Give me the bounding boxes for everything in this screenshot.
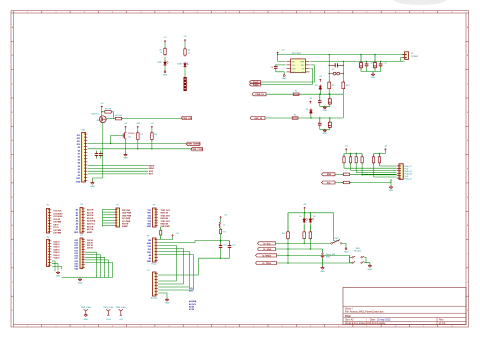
power symbol +5V above D3 — [319, 79, 321, 82]
capacitor C5 on PWR_IN — [319, 94, 321, 99]
svg-text:Sheet: /: Sheet: / — [345, 307, 353, 310]
wire R19 down to TXD net — [287, 239, 289, 264]
svg-text:C10: C10 — [369, 63, 372, 65]
svg-text:R10: R10 — [346, 85, 349, 87]
svg-text:7: 7 — [423, 326, 424, 328]
wire pin2 loop — [276, 64, 286, 66]
svg-text:A1: A1 — [76, 211, 78, 214]
ground below output caps — [372, 72, 374, 74]
svg-text:AD5 SCL: AD5 SCL — [87, 223, 96, 226]
LED D1 — [164, 62, 167, 65]
svg-text:D6: D6 — [78, 157, 80, 159]
svg-text:GND PWR: GND PWR — [161, 226, 171, 228]
svg-text:8: 8 — [451, 326, 452, 328]
power symbol +5V above Q2 — [125, 126, 127, 129]
power symbol +5V below flag — [120, 315, 121, 316]
svg-text:A7 IN: A7 IN — [189, 308, 195, 311]
svg-text:A5: A5 — [149, 257, 151, 260]
global label SDA2 — [258, 247, 276, 250]
wire PWR_IN rail — [266, 93, 343, 95]
svg-text:D1: D1 — [78, 172, 80, 174]
resistor R19 — [287, 213, 289, 232]
wire from R5 to gate — [111, 112, 113, 119]
svg-text:IO_SDA: IO_SDA — [263, 248, 271, 251]
ground below power flag 1 — [84, 314, 88, 316]
wire R8 down to net — [151, 139, 153, 148]
svg-text:D8: D8 — [78, 150, 80, 152]
svg-text:POWER: POWER — [411, 56, 419, 58]
global label GND_IN — [250, 116, 265, 119]
svg-text:C14: C14 — [232, 244, 235, 246]
ground below P6 — [57, 271, 59, 273]
svg-text:PWR_SENSE: PWR_SENSE — [187, 144, 201, 146]
power symbol +5V for LED branch 2 — [184, 40, 186, 43]
svg-text:R9: R9 — [332, 85, 334, 87]
wire drain of Q1 down — [102, 123, 104, 178]
svg-text:GND: GND — [163, 74, 168, 76]
svg-text:GND: GND — [282, 78, 287, 80]
power symbol +5V above L1 — [220, 217, 222, 220]
wire SDA2 net — [276, 248, 323, 250]
svg-text:2: 2 — [282, 326, 283, 328]
resistor R2 — [184, 49, 186, 55]
svg-text:TX1: TX1 — [148, 210, 151, 212]
svg-text:PinA_J2: PinA_J2 — [405, 178, 412, 181]
wire D3 to rail — [319, 91, 321, 94]
ground below P9 — [166, 298, 168, 300]
ground below C8 — [324, 129, 326, 131]
wire — [184, 69, 186, 78]
wire — [184, 42, 186, 49]
svg-text:D6: D6 — [313, 216, 315, 218]
svg-text:5V0: 5V0 — [148, 246, 151, 248]
svg-text:6: 6 — [395, 326, 396, 328]
svg-text:AREF: AREF — [87, 231, 93, 234]
svg-text:D13 SCK: D13 SCK — [54, 211, 63, 213]
svg-text:A7: A7 — [76, 228, 78, 231]
wire +5V down to pin1 — [278, 54, 286, 61]
svg-text:R19: R19 — [282, 233, 285, 235]
wire rail down to SW1 — [333, 213, 335, 241]
svg-text:D41: D41 — [75, 262, 78, 265]
svg-text:GND: GND — [78, 283, 83, 285]
global label TXD2 — [256, 261, 277, 264]
svg-text:D28 IO: D28 IO — [54, 249, 61, 251]
resistor R14 — [361, 154, 363, 157]
global label SCL2 — [258, 242, 276, 245]
svg-text:PWR_ON: PWR_ON — [182, 118, 192, 120]
svg-text:C12: C12 — [383, 63, 386, 65]
svg-text:AD3 IN: AD3 IN — [87, 217, 94, 220]
svg-text:D12: D12 — [77, 138, 80, 140]
polarized capacitor C9 — [360, 55, 362, 63]
power symbol +5V above R8 — [151, 126, 153, 129]
svg-text:4: 4 — [338, 326, 339, 328]
svg-text:A5: A5 — [76, 223, 78, 226]
capacitor C10 — [366, 61, 368, 62]
svg-text:A2: A2 — [76, 214, 78, 217]
svg-text:PWR_FLAG: PWR_FLAG — [103, 306, 113, 309]
svg-text:GND PWR: GND PWR — [122, 215, 132, 217]
global label PGND 1 — [250, 81, 261, 84]
LED D2 — [184, 64, 187, 67]
wire pin8 to rail — [310, 60, 404, 62]
wire R9 to rail PWR_IN — [328, 89, 330, 95]
svg-text:P1: P1 — [411, 53, 413, 55]
wire C5 C6 bottoms to ground — [320, 104, 330, 107]
vertical rail from top wires — [328, 55, 330, 64]
resistor R13 — [355, 154, 357, 157]
inductor L1 — [218, 222, 221, 227]
fuse F3 between P5 and P8 — [160, 227, 162, 230]
svg-text:C13: C13 — [223, 244, 226, 246]
LED D6 — [309, 213, 311, 218]
svg-text:GND: GND — [147, 261, 152, 263]
svg-text:D24 IO: D24 IO — [54, 243, 61, 246]
ground bus under P7 — [62, 277, 113, 279]
global label SIG1 — [322, 173, 336, 176]
wire +5V rail right group — [384, 151, 386, 153]
svg-text:PB_Boot: PB_Boot — [354, 249, 362, 252]
wire SW1 to ground — [342, 243, 346, 247]
resistor R11 — [343, 154, 345, 157]
diode D3 — [319, 86, 322, 89]
fuse F2 — [292, 117, 298, 119]
global label SENSE2 — [191, 148, 203, 151]
wire P8 pin4 down — [158, 249, 183, 285]
svg-text:GND: GND — [90, 186, 95, 188]
svg-text:J: J — [12, 282, 13, 284]
svg-text:8: 8 — [225, 12, 226, 14]
svg-text:D2: D2 — [78, 169, 80, 171]
wire — [164, 57, 166, 61]
svg-text:1: 1 — [253, 326, 254, 328]
svg-text:D10 SS: D10 SS — [54, 219, 61, 221]
svg-text:A3: A3 — [76, 217, 78, 220]
power symbol +5V right group — [384, 149, 386, 152]
svg-text:1k: 1k — [160, 52, 162, 54]
svg-text:PWR_IN: PWR_IN — [256, 94, 265, 96]
svg-text:SDA: SDA — [327, 173, 332, 176]
resistor R21 — [309, 224, 311, 232]
svg-text:PGND: PGND — [253, 84, 259, 86]
svg-text:4: 4 — [112, 12, 113, 14]
wire D4 to GND_IN rail — [310, 115, 312, 118]
svg-text:GND_IN: GND_IN — [254, 118, 262, 120]
connector J9 vertical strip — [184, 77, 187, 91]
svg-text:R7: R7 — [140, 134, 142, 136]
svg-text:D34 IO: D34 IO — [54, 257, 61, 260]
svg-text:D8 IO: D8 IO — [54, 224, 59, 226]
svg-text:C3: C3 — [271, 67, 273, 69]
svg-text:AD0 IN: AD0 IN — [87, 209, 94, 212]
ground below C6 — [324, 106, 326, 108]
svg-text:RXD1 IN: RXD1 IN — [161, 213, 169, 215]
ground at SW1 — [345, 246, 347, 249]
svg-text:4: 4 — [338, 12, 339, 14]
svg-text:RXD3 IN: RXD3 IN — [161, 224, 169, 226]
global label MOSFET_GATE — [181, 116, 192, 119]
connector P1 power output — [405, 52, 409, 60]
wire rail down to P9 — [158, 258, 198, 275]
power symbol +3V3 below flag — [107, 315, 108, 316]
varistor RV1 — [333, 72, 336, 75]
svg-text:6: 6 — [169, 12, 170, 14]
svg-text:GND: GND — [56, 276, 61, 278]
wires P9 pins from verticals — [158, 280, 176, 282]
svg-text:GND: GND — [147, 243, 152, 245]
svg-text:F: F — [467, 168, 468, 170]
wire pin6 loop — [261, 68, 313, 84]
svg-text:Power: Power — [151, 263, 157, 266]
power symbol +5V above Q1 — [101, 106, 103, 109]
svg-text:10 may 2013: 10 may 2013 — [377, 320, 391, 322]
global label SENSE1 — [186, 142, 200, 145]
svg-text:TX3: TX3 — [148, 221, 151, 223]
wire R7 down to net — [137, 139, 139, 148]
fuse F4 — [220, 228, 222, 230]
wire P8 pin3 down — [158, 246, 176, 282]
svg-text:D11 MOSI: D11 MOSI — [54, 216, 63, 218]
connector J2 — [399, 164, 403, 180]
svg-text:3: 3 — [310, 326, 311, 328]
svg-text:D12 MISO: D12 MISO — [54, 213, 63, 215]
svg-text:GND: GND — [323, 133, 328, 135]
svg-text:R8: R8 — [155, 134, 157, 136]
svg-text:1: 1 — [27, 326, 28, 328]
svg-text:GND: GND — [76, 181, 81, 183]
wire C7 C8 bottoms to ground — [320, 126, 330, 129]
svg-text:D6 PWM: D6 PWM — [54, 230, 62, 232]
svg-text:7: 7 — [197, 12, 198, 14]
ground below Q2 — [125, 153, 127, 155]
wire TXD2 net — [277, 262, 353, 264]
LED D5 — [303, 213, 305, 218]
svg-text:RX2: RX2 — [147, 218, 151, 220]
wire gate line to global label — [122, 118, 181, 120]
global label PWR_IN — [252, 93, 266, 96]
svg-text:AD6 IN: AD6 IN — [87, 225, 94, 228]
fuse F1 — [293, 93, 299, 95]
svg-text:P9: P9 — [147, 270, 149, 272]
svg-text:GND: GND — [123, 158, 128, 160]
wire cap bottoms rail — [199, 249, 230, 259]
svg-text:F1: F1 — [295, 91, 297, 93]
wire SIG1 to R17 — [335, 173, 343, 175]
svg-text:3: 3 — [84, 326, 85, 328]
resistor R15 — [373, 154, 375, 157]
capacitor C12 — [380, 61, 382, 62]
wire gate of Q1 — [106, 118, 114, 120]
svg-text:Size: A3: Size: A3 — [345, 319, 354, 322]
svg-text:5: 5 — [367, 12, 368, 14]
svg-text:D5: D5 — [299, 216, 301, 218]
svg-text:A6: A6 — [76, 225, 78, 228]
resistor R7 — [137, 133, 140, 140]
svg-text:8: 8 — [451, 12, 452, 14]
svg-text:IO_TXD0: IO_TXD0 — [262, 263, 272, 265]
svg-text:IO_SCL: IO_SCL — [263, 243, 271, 245]
power symbol +5V at IC1 input — [277, 52, 279, 55]
resistor R17 horizontal — [343, 173, 349, 176]
resistor R12 — [350, 154, 352, 157]
resistor R8 — [151, 133, 154, 140]
svg-text:MCP1825: MCP1825 — [292, 53, 302, 55]
svg-text:C4: C4 — [332, 69, 334, 71]
svg-text:5: 5 — [140, 326, 141, 328]
svg-text:7: 7 — [423, 12, 424, 14]
wire — [137, 129, 139, 133]
ground below IC1 — [283, 73, 285, 76]
svg-text:Q2: Q2 — [128, 137, 131, 139]
wire — [220, 219, 222, 222]
svg-text:RST: RST — [301, 65, 304, 67]
capacitor C3 at IC1 — [274, 65, 278, 67]
global label RXD2 — [256, 254, 277, 257]
svg-text:8: 8 — [225, 326, 226, 328]
svg-text:3V3 PWR: 3V3 PWR — [122, 221, 131, 223]
wire R20 to net — [303, 239, 305, 244]
svg-text:SCK: SCK — [149, 171, 154, 173]
svg-text:Date:: Date: — [370, 319, 376, 322]
svg-text:D5 PWM: D5 PWM — [54, 233, 62, 235]
svg-text:RST: RST — [149, 174, 154, 176]
svg-text:RX3: RX3 — [147, 224, 151, 226]
svg-text:GND: GND — [371, 77, 376, 79]
power symbol +5V left group — [345, 149, 347, 152]
wire connector J2 to ground — [390, 179, 392, 186]
wire lower rail to connector — [401, 58, 405, 62]
ground below SW2 — [322, 266, 324, 268]
svg-text:D3: D3 — [78, 166, 80, 168]
wire — [164, 67, 166, 71]
svg-text:R5 10k: R5 10k — [105, 108, 111, 110]
ground below SW3 — [369, 264, 371, 266]
svg-text:PWR_CTRL: PWR_CTRL — [192, 149, 204, 151]
svg-text:MISO: MISO — [149, 168, 155, 170]
resistor R1 — [164, 48, 166, 54]
wire — [125, 129, 127, 133]
svg-text:BUZ171: BUZ171 — [92, 114, 100, 116]
wire P6 lower pins — [52, 261, 55, 271]
svg-text:A5 SCL: A5 SCL — [189, 303, 197, 306]
wire R21 to net — [309, 239, 311, 250]
wire C3 bottom to ground — [276, 69, 284, 74]
svg-text:1: 1 — [253, 12, 254, 14]
wire SIG2 to connector — [350, 179, 391, 182]
svg-text:D32 IO: D32 IO — [54, 255, 61, 257]
svg-text:D26 IO: D26 IO — [54, 247, 61, 249]
svg-text:3: 3 — [310, 12, 311, 14]
power symbol +5V above D4 — [309, 101, 311, 104]
svg-text:AD7 IN: AD7 IN — [87, 228, 94, 231]
svg-text:D29 IO: D29 IO — [87, 248, 94, 250]
svg-text:A0: A0 — [76, 209, 78, 212]
wire rails down — [328, 63, 330, 82]
wire — [151, 129, 153, 133]
wire bus left of P4 — [102, 209, 104, 226]
svg-text:GND: GND — [165, 303, 170, 305]
svg-text:A4 SDA: A4 SDA — [189, 300, 197, 303]
svg-text:D11: D11 — [77, 141, 80, 143]
polarized capacitor C8 on GND_IN — [329, 118, 331, 122]
transistor Q2 NMOS — [124, 132, 126, 138]
wire GND_IN rail — [265, 117, 343, 119]
svg-text:R6 100: R6 100 — [115, 115, 121, 117]
svg-text:2N7002: 2N7002 — [128, 133, 135, 135]
svg-text:D4: D4 — [306, 109, 308, 111]
svg-text:GND PWR: GND PWR — [122, 213, 132, 215]
svg-text:D9: D9 — [78, 147, 80, 149]
svg-text:4: 4 — [112, 326, 113, 328]
svg-text:5: 5 — [367, 326, 368, 328]
svg-text:MOSI: MOSI — [149, 165, 155, 167]
svg-text:PWR_FLAG: PWR_FLAG — [116, 306, 126, 309]
wire CN1 lower nets to local labels — [88, 165, 148, 167]
ground below J2 — [390, 185, 392, 187]
svg-text:5: 5 — [140, 12, 141, 14]
svg-text:D5: D5 — [78, 160, 80, 162]
polarized capacitor C6 on PWR_IN — [329, 94, 331, 98]
svg-text:D45: D45 — [75, 268, 78, 271]
wire P8 pin2 to cap rail — [158, 241, 229, 243]
svg-text:3V3: 3V3 — [148, 249, 151, 251]
diode D4 1N4148 — [309, 110, 312, 113]
wire gate of Q2 — [111, 136, 124, 144]
wire R10 down to GND_IN rail — [342, 89, 344, 118]
svg-text:2: 2 — [55, 12, 56, 14]
capacitor C14 — [229, 241, 231, 245]
wire +5V to R5 — [102, 111, 105, 113]
transistor Q1 PMOS BUZ171 — [99, 116, 106, 123]
global label SIG2 — [322, 181, 336, 184]
svg-text:AD4 SDA: AD4 SDA — [87, 220, 96, 223]
wire SIG2 to R18 — [335, 182, 343, 184]
svg-text:+3V3: +3V3 — [136, 123, 140, 125]
svg-text:GND: GND — [389, 190, 394, 192]
polarized capacitor C11 — [374, 55, 376, 63]
svg-text:D22 IO: D22 IO — [54, 241, 61, 243]
resistor R10 — [342, 82, 345, 89]
svg-text:6: 6 — [169, 326, 170, 328]
wire top rail to power connector — [278, 54, 405, 56]
wire to ground corner — [92, 178, 102, 182]
power symbol +3V3 above R7 — [137, 126, 139, 129]
svg-text:PWR: PWR — [157, 62, 162, 64]
svg-text:3: 3 — [84, 12, 85, 14]
svg-text:F4: F4 — [223, 231, 225, 233]
svg-text:GND: GND — [147, 226, 152, 228]
resistor R16 — [378, 154, 380, 157]
svg-text:GND: GND — [323, 110, 328, 112]
svg-text:Analog: Analog — [151, 297, 157, 300]
svg-text:L1: L1 — [223, 225, 225, 227]
svg-text:D7 IO: D7 IO — [54, 227, 59, 229]
wire CN1 pin6 net — [88, 148, 191, 150]
svg-text:D43: D43 — [75, 265, 78, 268]
capacitor C1 — [95, 153, 99, 155]
svg-text:AD1 IN: AD1 IN — [87, 211, 94, 214]
svg-text:7: 7 — [197, 326, 198, 328]
wire — [164, 43, 166, 48]
wire +5V rail left group — [345, 151, 347, 153]
capacitor C13 — [220, 241, 222, 245]
power symbol +5V near P8 — [172, 235, 174, 238]
svg-text:RXD2 IN: RXD2 IN — [161, 218, 169, 220]
svg-text:GND: GND — [84, 319, 89, 321]
resistor R5 horizontal — [105, 111, 111, 114]
svg-text:GND: GND — [320, 271, 325, 273]
